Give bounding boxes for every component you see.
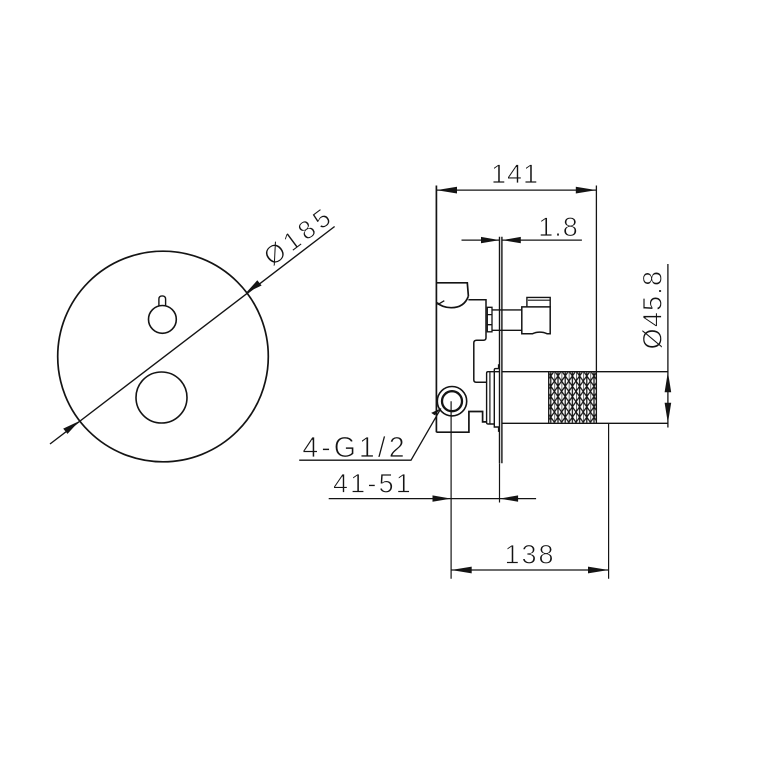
arrowhead Ø45.8 down [665, 403, 672, 424]
arrowhead 138 left [451, 567, 472, 574]
svg-text:1.8: 1.8 [538, 212, 579, 242]
svg-text:138: 138 [504, 540, 555, 570]
indicator pin on small knob [159, 296, 166, 306]
body bottom step outline [436, 412, 486, 433]
leader 4-G1/2 [299, 408, 441, 460]
inlet port inner circle [442, 391, 462, 411]
handle tab inner line [528, 299, 550, 301]
knob bar top edge [502, 371, 668, 373]
dimension Ø45.8 vertical line [667, 264, 669, 428]
svg-text:141: 141 [491, 159, 539, 189]
arrowhead 41-51 pointing right [433, 495, 452, 501]
wall plate (escutcheon) back line [501, 237, 503, 463]
volume knob inner circle [136, 372, 187, 423]
leader arrowhead [431, 408, 441, 415]
arrowhead 141 right [576, 187, 597, 194]
arrowhead 1.8 pointing right at plate [481, 237, 500, 243]
arrowhead 1.8 pointing left at plate [502, 237, 521, 243]
dimension 1.8 line left part [462, 239, 500, 241]
arrowhead 41-51 pointing left [500, 495, 519, 501]
inlet port outer circle [437, 387, 466, 416]
flange ring A inner line [489, 372, 491, 424]
arrowhead lower-left on circle [63, 421, 79, 434]
dimension 141 line [436, 189, 596, 191]
extension line right of 141 down to knob [595, 186, 597, 372]
knurl right edge / 141 extension continuation [595, 372, 597, 424]
dimension 138 line [451, 569, 608, 571]
arrowhead 138 right [588, 567, 609, 574]
svg-text:4-G1/2: 4-G1/2 [302, 432, 407, 464]
dimension 1.8 line right part [502, 239, 582, 241]
knurl boundary line [548, 372, 550, 424]
knurled grip fill [549, 372, 596, 422]
extension line right for 138 [608, 423, 610, 578]
cartridge stem shaft bottom [492, 329, 522, 331]
arrowhead 141 left [436, 187, 457, 194]
svg-text:Ø185: Ø185 [258, 200, 340, 272]
faceplate outer circle [58, 251, 269, 462]
flange ring B [494, 364, 499, 431]
svg-text:41-51: 41-51 [333, 469, 413, 499]
cartridge ribs [487, 307, 492, 332]
tick on fillet [438, 301, 445, 305]
diameter dimension line Ø185 [50, 227, 335, 445]
arrowhead upper-right on circle [246, 280, 262, 293]
arrowhead Ø45.8 up [665, 372, 672, 393]
svg-text:Ø45.8: Ø45.8 [638, 270, 668, 350]
handle top tab [527, 297, 550, 307]
knob bar bottom edge [502, 422, 668, 424]
extension line below plate for 41-51 [499, 463, 501, 502]
fillet arc under inlet boss [437, 296, 468, 308]
handle block [522, 307, 550, 334]
dimension 41-51 line [329, 498, 536, 500]
inlet boss top edge [436, 283, 468, 296]
wall plate (escutcheon) front line [499, 237, 501, 463]
cartridge stem shaft top [492, 309, 522, 311]
extension line through port center [450, 401, 452, 579]
body shoulder and right side with neck step [468, 300, 486, 383]
flange ring A [487, 372, 500, 424]
valve body left edge / 141 extension [435, 186, 437, 433]
temperature knob small circle [149, 306, 177, 334]
